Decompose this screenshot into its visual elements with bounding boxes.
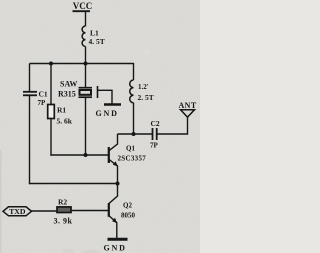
antenna symbol — [181, 110, 195, 117]
wire top bus to R1 — [50, 64, 52, 105]
svg-text:GND: GND — [96, 109, 119, 118]
svg-text:7P: 7P — [150, 142, 159, 150]
wire SAW bottom to base bus — [85, 97, 87, 155]
wire L2 to collector bus — [133, 103, 135, 134]
net VCC label — [73, 1, 93, 11]
resistor R2 — [57, 207, 71, 213]
svg-text:C2: C2 — [151, 119, 160, 128]
Q2 labels — [121, 202, 136, 220]
L2 value labels — [138, 83, 154, 102]
wire top bus to SAW — [85, 64, 87, 88]
svg-text:3. 9k: 3. 9k — [54, 217, 73, 226]
C1 value labels — [38, 90, 48, 108]
wire R1 to base bus — [50, 119, 52, 156]
R2 value labels — [54, 198, 73, 226]
GND label (SAW) — [96, 109, 119, 118]
svg-text:8050: 8050 — [121, 212, 136, 220]
transistor Q2 base bar — [108, 203, 110, 217]
junction dot SAW on base bus — [84, 153, 88, 157]
wire C2 to antenna — [157, 117, 188, 135]
svg-text:GND: GND — [104, 244, 127, 253]
svg-text:VCC: VCC — [73, 1, 93, 11]
svg-text:R1: R1 — [57, 106, 66, 115]
capacitor C1 — [23, 92, 37, 96]
R1 value labels — [57, 106, 73, 126]
transistor Q1 emitter lead with arrow — [109, 159, 118, 183]
junction dot at L1/SAW branch — [84, 62, 88, 66]
C2 value labels — [150, 119, 160, 150]
svg-text:Q1: Q1 — [126, 145, 135, 153]
transistor Q2 emitter lead with arrow — [109, 216, 117, 239]
svg-text:2SC3357: 2SC3357 — [118, 155, 147, 163]
wire R2 to Q2 base — [71, 210, 109, 212]
wire feedback bottom to emitter node — [29, 183, 118, 185]
junction dot L2 on collector bus — [132, 132, 136, 136]
wire top bus — [30, 63, 134, 65]
L1 value labels — [89, 29, 105, 47]
SAW case electrode — [97, 86, 99, 98]
wire L1 to top bus — [85, 46, 87, 63]
wire collector bus — [118, 133, 153, 135]
transistor Q1 collector lead — [109, 134, 118, 151]
TXD input tag — [3, 207, 32, 216]
VCC rail bar — [73, 10, 91, 12]
wire top bus to L2 — [133, 63, 135, 80]
Q1 labels — [118, 145, 147, 163]
transistor Q2 collector lead — [109, 184, 118, 204]
wire base bus to Q1 — [50, 154, 108, 156]
svg-text:ANT: ANT — [179, 101, 197, 110]
ground bar (Q2) — [108, 238, 128, 241]
wire TXD to R2 — [32, 210, 58, 212]
SAW resonator labels — [58, 80, 77, 99]
wire SAW case to ground — [98, 90, 112, 104]
inductor L2 — [130, 80, 134, 103]
transistor Q1 base bar — [108, 147, 110, 163]
svg-text:C1: C1 — [39, 90, 48, 99]
inductor L1 — [82, 26, 85, 46]
svg-text:2. 5T: 2. 5T — [138, 93, 154, 102]
svg-text:4. 5T: 4. 5T — [89, 37, 105, 46]
junction dot emitter node — [116, 182, 120, 186]
svg-text:1.2′: 1.2′ — [138, 83, 149, 91]
junction dot at R1 branch — [49, 62, 53, 66]
svg-text:SAW: SAW — [60, 80, 77, 89]
svg-text:Q2: Q2 — [123, 202, 132, 210]
SAW resonator crystal — [79, 88, 93, 98]
svg-text:R315: R315 — [58, 90, 76, 99]
svg-text:7P: 7P — [38, 99, 47, 107]
wire VCC to L1 — [85, 11, 87, 26]
svg-text:5. 6k: 5. 6k — [57, 117, 73, 126]
wire C1 down left side — [29, 96, 31, 185]
paper background — [0, 0, 200, 253]
ground bar (SAW) — [104, 103, 121, 106]
svg-text:TXD: TXD — [9, 207, 26, 216]
capacitor C2 — [153, 128, 157, 140]
resistor R1 — [48, 105, 55, 119]
GND label (Q2) — [104, 244, 127, 253]
ANT label — [179, 101, 197, 110]
wire top bus to C1 — [29, 64, 31, 92]
svg-text:R2: R2 — [58, 198, 67, 207]
